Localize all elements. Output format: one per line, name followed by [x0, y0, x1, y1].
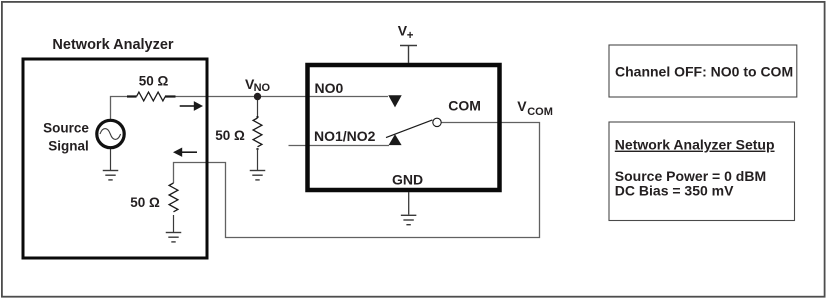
svg-text:GND: GND	[392, 171, 423, 187]
svg-text:NO1/NO2: NO1/NO2	[314, 128, 376, 144]
svg-text:+: +	[407, 30, 414, 42]
resistor R3 50Ω return termination	[169, 183, 178, 232]
wire: NO1/NO2 stub	[289, 145, 390, 147]
annotation box: Channel OFF	[609, 45, 797, 97]
svg-text:Source: Source	[43, 121, 89, 136]
label: VNO	[245, 76, 271, 94]
AC source V1 (Source Signal)	[97, 120, 124, 147]
pole contact (open circle)	[433, 118, 441, 126]
V+ pin	[400, 46, 417, 64]
svg-text:NO0: NO0	[315, 80, 344, 96]
Network Analyzer box	[23, 59, 207, 258]
svg-text:50 Ω: 50 Ω	[139, 74, 169, 89]
svg-text:NO: NO	[254, 82, 271, 94]
wire: GND pin to ground	[408, 192, 410, 215]
svg-text:COM: COM	[527, 106, 553, 118]
wire: COM to VCOM loop back into analyzer to R3	[174, 123, 540, 238]
label: V+	[398, 22, 414, 42]
throw contact NO1/NO2 (up triangle)	[389, 134, 402, 145]
label: Source Signal	[43, 121, 89, 154]
svg-text:Channel OFF: NO0 to COM: Channel OFF: NO0 to COM	[615, 63, 793, 79]
label: VCOM	[517, 98, 553, 118]
resistor R1 50Ω series	[127, 92, 176, 101]
node VNO	[254, 93, 261, 100]
ground (R2)	[250, 171, 266, 180]
svg-text:50 Ω: 50 Ω	[215, 128, 245, 143]
ground (GND pin)	[401, 215, 417, 224]
ground (source)	[103, 171, 119, 180]
svg-text:Network Analyzer: Network Analyzer	[52, 37, 173, 53]
wire: source bottom to ground	[110, 149, 112, 170]
wire: source top to R1	[111, 97, 129, 121]
arrow: forward direction	[180, 101, 203, 111]
svg-text:DC Bias = 350 mV: DC Bias = 350 mV	[615, 183, 734, 199]
annotation box: Network Analyzer Setup	[609, 122, 795, 221]
throw contact NO0 (down triangle)	[388, 95, 401, 107]
svg-text:50 Ω: 50 Ω	[130, 195, 160, 210]
arrow: return direction	[173, 148, 197, 157]
ground (R3)	[166, 233, 182, 242]
wire: R1 to NO0 through VNO node	[175, 96, 388, 98]
switch box U1	[308, 65, 500, 190]
wire: VNO node down to R2	[257, 97, 259, 119]
svg-text:COM: COM	[448, 98, 481, 114]
resistor R2 50Ω VNO termination	[253, 116, 262, 170]
svg-text:Signal: Signal	[48, 139, 89, 154]
svg-text:V: V	[517, 98, 527, 114]
switch arm (pole to NO1/NO2)	[386, 120, 432, 138]
svg-text:Network Analyzer Setup: Network Analyzer Setup	[615, 137, 775, 153]
